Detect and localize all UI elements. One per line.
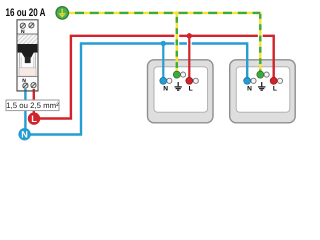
node L marker bbox=[28, 112, 40, 124]
wire halo: earth drop socket 2 bbox=[258, 32, 263, 42]
wire: phase branch drop to socket 1 bbox=[188, 36, 190, 81]
breaker top screw left bbox=[20, 23, 25, 28]
socket 2 terminal screw holes bbox=[251, 78, 256, 83]
socket 2 phase terminal bbox=[270, 77, 277, 84]
socket 2 inner plate bbox=[236, 67, 290, 112]
svg-text:L: L bbox=[189, 85, 193, 92]
breaker black face bbox=[18, 44, 38, 53]
breaker hatched section bbox=[18, 34, 38, 44]
circuit breaker body bbox=[17, 20, 38, 91]
breaker label window bbox=[19, 68, 36, 76]
junction dot neutral bbox=[161, 41, 166, 46]
breaker side rails bbox=[19, 53, 21, 76]
node N marker bbox=[18, 128, 30, 140]
svg-text:N: N bbox=[21, 29, 25, 35]
breaker bottom edge over wires bbox=[17, 90, 39, 92]
wire halo: phase drop over neutral run bbox=[187, 39, 192, 50]
wire: neutral run (N marker, riser, top run, drop to socket 2) bbox=[26, 44, 247, 135]
breaker bottom screw left bbox=[23, 83, 28, 88]
socket 1 phase terminal bbox=[186, 77, 193, 84]
socket 2 outer plate bbox=[230, 60, 296, 123]
socket 2 neutral terminal bbox=[244, 77, 251, 84]
wire: neutral branch drop to socket 1 bbox=[162, 44, 164, 81]
wire: neutral stub from breaker down bbox=[24, 89, 26, 130]
svg-text:L: L bbox=[31, 114, 37, 124]
socket 1 inner plate bbox=[154, 67, 208, 112]
socket 2 earth terminal bbox=[257, 71, 264, 78]
socket 1 terminal screw holes bbox=[167, 78, 172, 83]
svg-text:N: N bbox=[163, 85, 168, 92]
breaker top screw right bbox=[29, 23, 34, 28]
breaker bottom screw right bbox=[31, 83, 36, 88]
wire gauge label box "1,5 ou 2,5 mm2" bbox=[6, 100, 59, 111]
wire: phase run (L marker, riser, top run, drop to socket 2) bbox=[35, 36, 274, 119]
wire: earth branch drop to socket 1 bbox=[176, 11, 178, 74]
socket 1 earth terminal bbox=[173, 71, 180, 78]
socket 1 earth symbol bbox=[175, 82, 182, 90]
wire halo: earth drop socket 1 bbox=[174, 32, 179, 50]
wire: phase stub from breaker down bbox=[33, 89, 35, 114]
socket 2 earth symbol bbox=[258, 82, 265, 90]
svg-text:L: L bbox=[273, 85, 277, 92]
svg-text:1,5 ou 2,5 mm²: 1,5 ou 2,5 mm² bbox=[6, 101, 59, 110]
socket 1 neutral terminal bbox=[160, 77, 167, 84]
svg-text:N: N bbox=[247, 85, 252, 92]
junction dot phase bbox=[187, 33, 192, 38]
svg-text:N: N bbox=[21, 130, 28, 140]
wire: earth main run (yellow base) bbox=[66, 13, 260, 75]
breaker toggle lever bbox=[25, 57, 31, 64]
socket 1 outer plate bbox=[148, 60, 214, 123]
svg-text:16 ou 20 A: 16 ou 20 A bbox=[6, 7, 46, 19]
earth source circle bbox=[56, 7, 68, 19]
